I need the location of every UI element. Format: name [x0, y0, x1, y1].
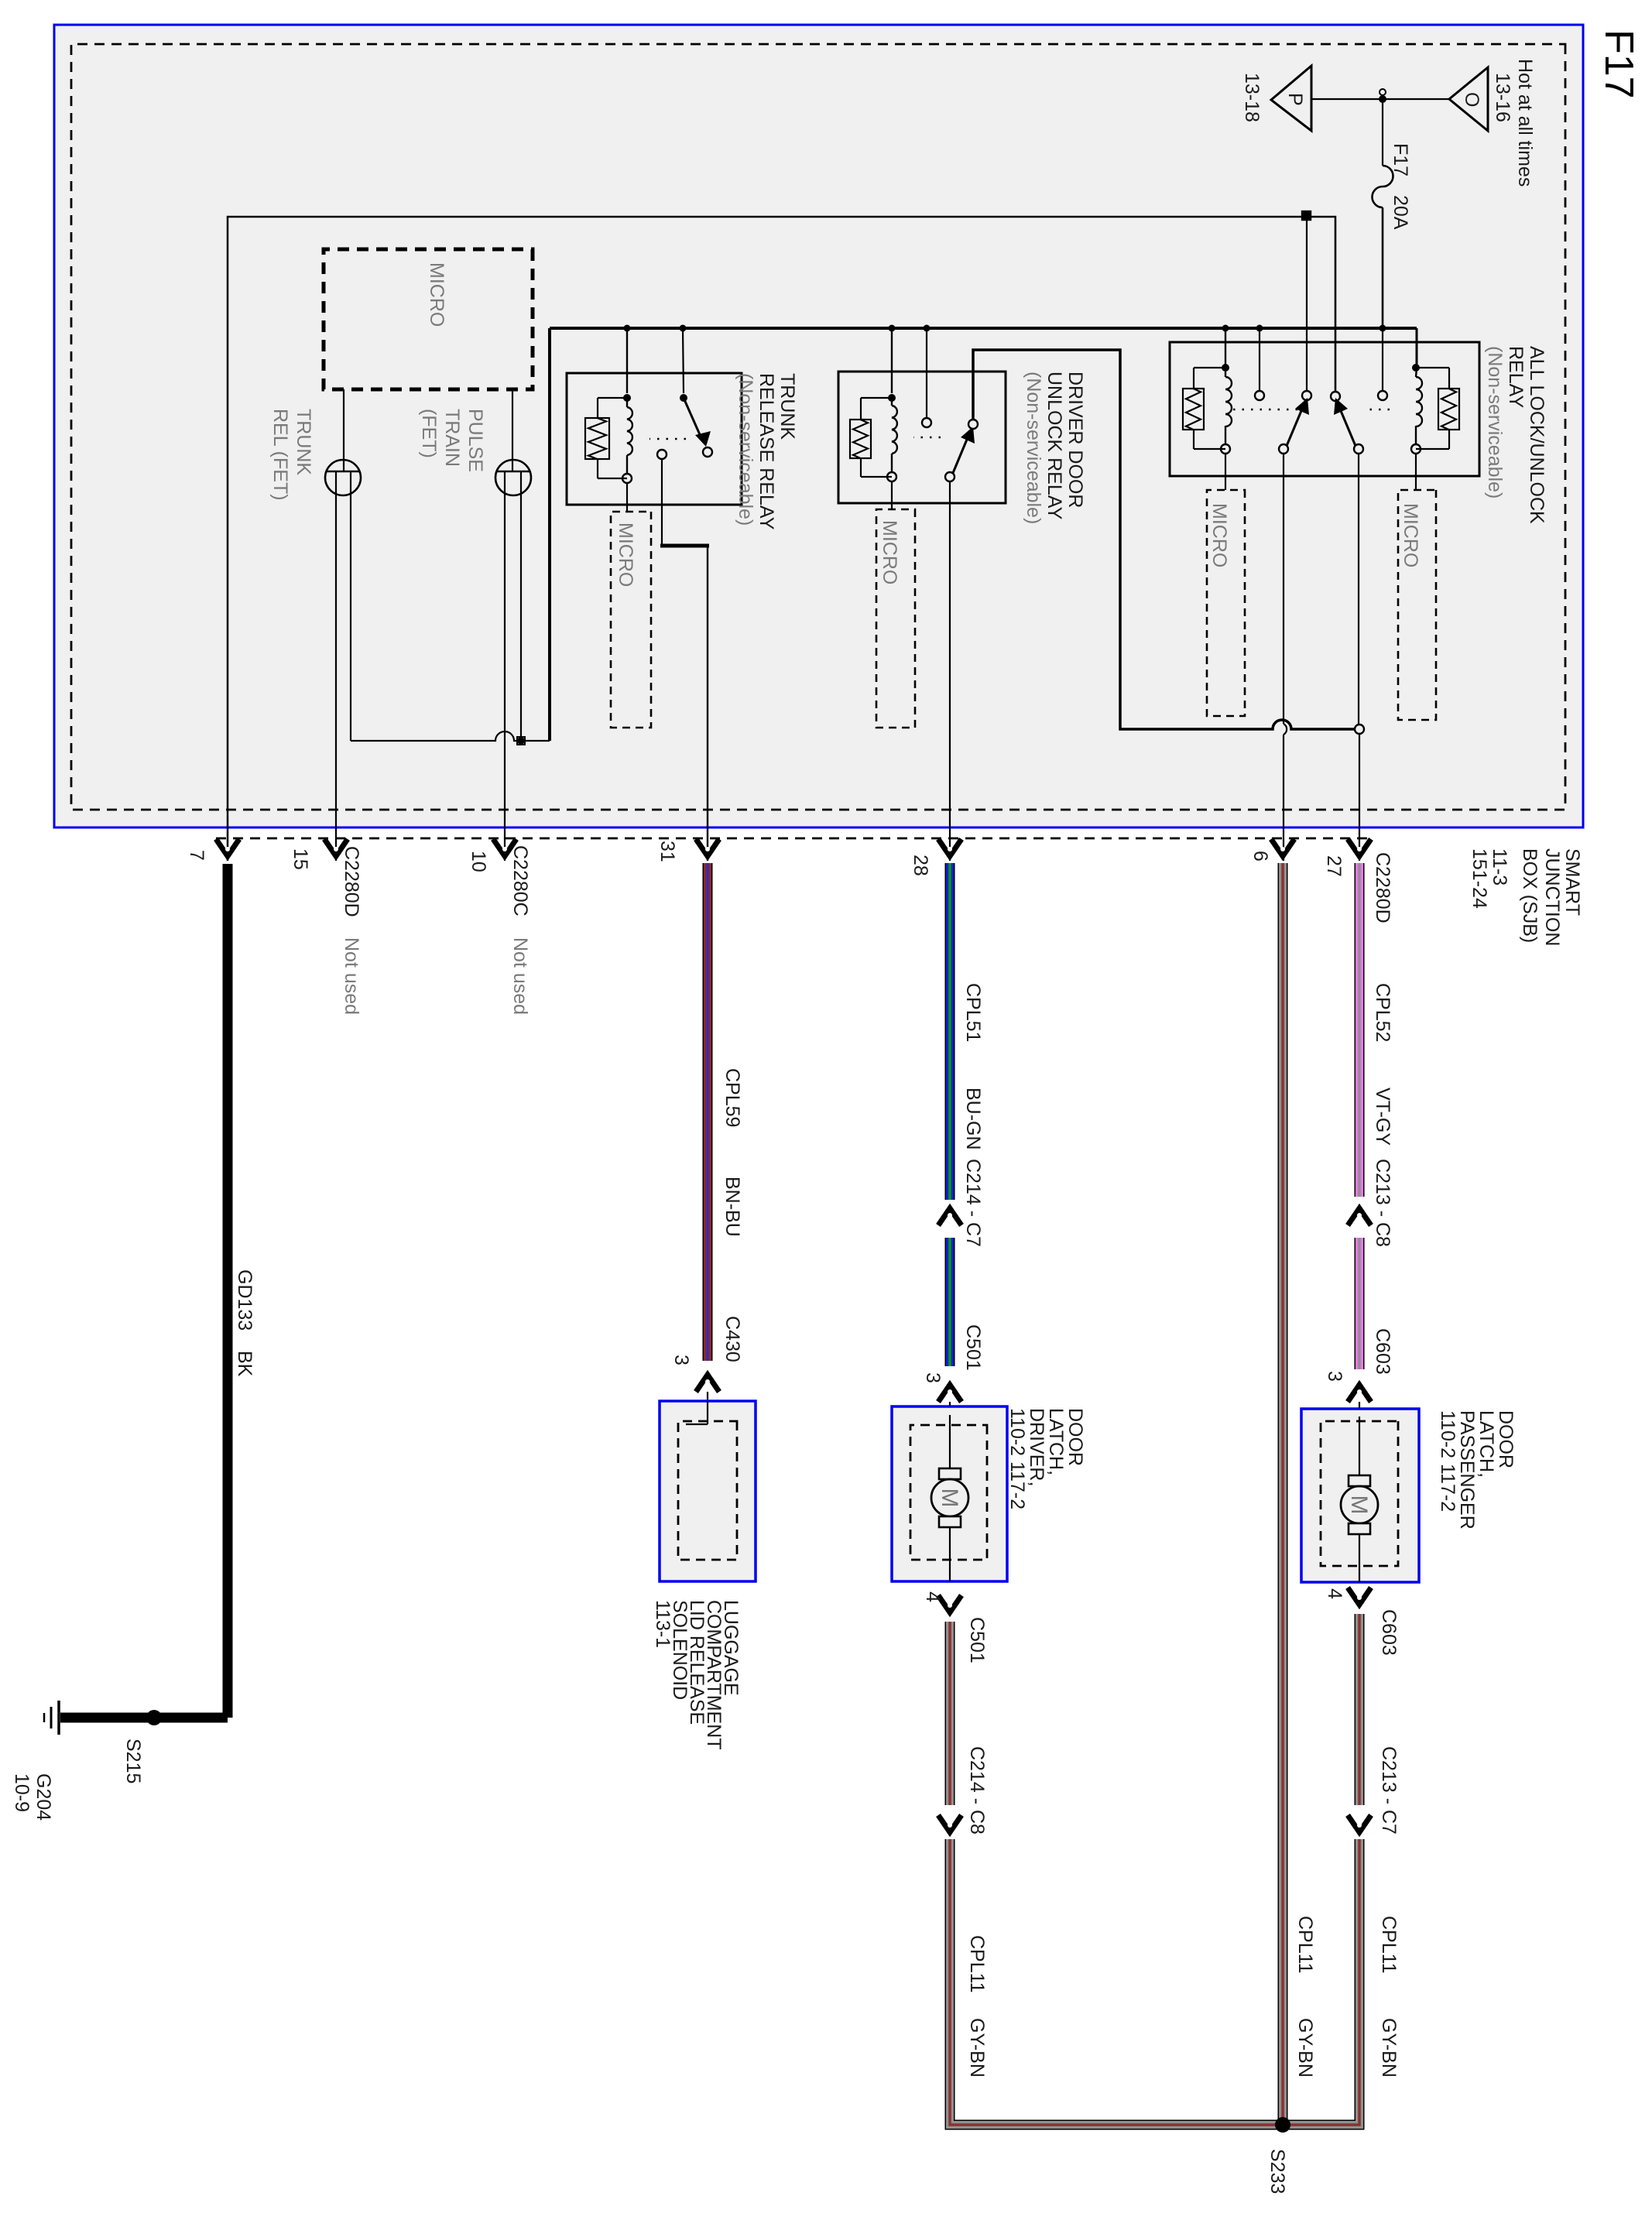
bus dot trunk sw	[680, 325, 687, 332]
svg-text:O: O	[1461, 92, 1482, 107]
pin 6 arrow	[1271, 839, 1294, 856]
driver switch fixed contact	[922, 328, 931, 427]
smart junction box (SJB) outline	[54, 25, 1583, 827]
driver coil resistor	[850, 398, 892, 477]
coil2 resistor	[1416, 368, 1459, 449]
wire in driver latch	[949, 1415, 951, 1468]
connector C501 arrow	[938, 1385, 961, 1402]
SJB inner dashed border	[71, 44, 1565, 810]
DOOR LATCH DRIVER box	[892, 1406, 1007, 1581]
MICRO box lock coil	[1207, 490, 1245, 716]
wire junction to P	[1311, 98, 1383, 100]
all-lock relay coil 2	[1411, 364, 1422, 454]
svg-text:C213 - C8: C213 - C8	[1372, 1159, 1393, 1247]
wire trunk output jog	[661, 459, 663, 546]
svg-text:REL (FET): REL (FET)	[269, 409, 291, 501]
wire CPL11 GY-BN passenger return	[1355, 1614, 1365, 1805]
trunk switch NC contact	[703, 447, 712, 457]
svg-text:RELEASE RELAY: RELEASE RELAY	[756, 373, 777, 530]
bus dot driver coil	[889, 325, 896, 332]
pin 7 arrow	[216, 839, 239, 856]
svg-text:DRIVER,: DRIVER,	[1026, 1408, 1047, 1486]
svg-text:M: M	[1346, 1495, 1372, 1515]
wire into luggage box	[707, 1392, 708, 1424]
unlock switch NC contact	[1331, 220, 1340, 401]
svg-text:SMART: SMART	[1561, 848, 1583, 916]
svg-text:G204: G204	[33, 1773, 54, 1821]
svg-text:TRUNK: TRUNK	[293, 409, 314, 475]
ground rail	[228, 217, 1335, 861]
svg-text:TRAIN: TRAIN	[441, 409, 463, 467]
svg-text:LATCH,: LATCH,	[1475, 1410, 1497, 1478]
transistor PULSE TRAIN FET	[495, 389, 531, 495]
pin 4 arrow passenger	[1348, 1588, 1371, 1605]
svg-text:(Non-serviceable): (Non-serviceable)	[1484, 346, 1506, 498]
unlock switch fixed contact	[1378, 328, 1387, 400]
junction ring pin27	[1355, 725, 1364, 734]
LUGGAGE SOLENOID box	[660, 1401, 756, 1581]
pin 28 arrow	[938, 839, 961, 856]
MICRO box main	[324, 249, 533, 389]
svg-text:C501: C501	[966, 1617, 988, 1663]
MICRO box driver	[876, 509, 915, 728]
wire junction to fuse	[1382, 99, 1383, 166]
svg-text:4: 4	[922, 1591, 944, 1602]
svg-text:BK: BK	[234, 1351, 255, 1377]
connector C213-C8 arrow	[1348, 1208, 1371, 1225]
svg-text:ALL LOCK/UNLOCK: ALL LOCK/UNLOCK	[1526, 346, 1547, 524]
thick wire driver output to junction	[973, 350, 1355, 729]
wire CPL51 BU-GN segment 1	[945, 863, 955, 1200]
lock switch link	[1230, 409, 1297, 410]
svg-text:13-16: 13-16	[1492, 73, 1513, 122]
splice S233	[1275, 2117, 1290, 2133]
svg-text:DOOR: DOOR	[1495, 1410, 1517, 1468]
svg-text:CPL51: CPL51	[962, 983, 984, 1042]
svg-text:C2280C: C2280C	[509, 845, 531, 916]
wire unlock switch to junction	[1358, 454, 1359, 725]
trunk switch link	[649, 438, 686, 440]
svg-text:Hot at all times: Hot at all times	[1514, 59, 1536, 187]
svg-text:S233: S233	[1266, 2149, 1288, 2194]
wire bus to lock coil nodeA	[1225, 328, 1226, 368]
bus dot fuse	[1380, 325, 1386, 332]
pulse FET output pin 10	[504, 471, 506, 861]
driver switch output contact	[968, 420, 978, 429]
svg-text:DRIVER DOOR: DRIVER DOOR	[1064, 372, 1086, 508]
svg-text:UNLOCK RELAY: UNLOCK RELAY	[1044, 372, 1065, 520]
svg-text:C2280D: C2280D	[1372, 852, 1393, 923]
lock coil resistor	[1183, 368, 1225, 449]
svg-text:CPL59: CPL59	[721, 1068, 743, 1127]
transistor TRUNK REL FET	[325, 389, 361, 495]
wire CPL51 BU-GN segment 2	[945, 1238, 955, 1366]
svg-text:C430: C430	[721, 1316, 743, 1362]
svg-text:CPL11: CPL11	[1294, 1916, 1316, 1974]
svg-text:BOX (SJB): BOX (SJB)	[1519, 848, 1541, 943]
wire lock switch to pin 6	[1283, 454, 1284, 724]
wire lock coil to MICRO	[1225, 454, 1226, 490]
pulse FET output to junction	[517, 471, 525, 745]
ground rail junction square	[1302, 211, 1311, 220]
svg-text:M: M	[937, 1489, 962, 1508]
svg-text:P: P	[1284, 93, 1306, 106]
pin 27 arrow	[1348, 839, 1371, 856]
svg-text:MICRO: MICRO	[1208, 503, 1230, 567]
connector C2280 dashed line	[215, 838, 1367, 840]
bus dot unlock contact	[1256, 325, 1263, 332]
svg-text:GY-BN: GY-BN	[1378, 2018, 1400, 2078]
wire inside luggage box	[707, 1401, 708, 1424]
unlock switch arm	[1334, 398, 1363, 454]
trunk relay coil	[622, 328, 632, 483]
svg-text:13-18: 13-18	[1241, 73, 1263, 122]
svg-text:(Non-serviceable): (Non-serviceable)	[735, 373, 756, 526]
wire GD133 BK	[223, 864, 233, 1718]
svg-text:BN-BU: BN-BU	[721, 1177, 743, 1237]
wire CPL11 GY-BN driver return	[945, 1622, 955, 1805]
svg-text:(FET): (FET)	[418, 409, 440, 458]
svg-text:DOOR: DOOR	[1064, 1408, 1086, 1466]
connector C214-C8 arrow	[938, 1815, 961, 1832]
junction node A	[1379, 95, 1386, 103]
wire O to junction	[1383, 98, 1449, 100]
trunk coil resistor	[585, 398, 627, 478]
trunk FET output pin 15	[335, 471, 337, 861]
wire CPL59 BN-BU	[703, 863, 713, 1361]
ground G204	[57, 1701, 60, 1735]
svg-text:10: 10	[468, 851, 489, 872]
lock switch fixed contact	[1255, 328, 1264, 400]
svg-text:151-24: 151-24	[1469, 848, 1490, 909]
MICRO box trunk	[611, 512, 651, 728]
fuse F17 20A	[1373, 166, 1393, 207]
wire into passenger latch	[1359, 1402, 1360, 1417]
wire in passenger latch	[1359, 1417, 1360, 1475]
wire into driver latch	[949, 1402, 951, 1415]
pin 4 arrow driver	[938, 1595, 961, 1612]
svg-text:C213 - C7: C213 - C7	[1378, 1746, 1400, 1835]
ALL LOCK/UNLOCK RELAY box	[1170, 342, 1479, 476]
bus bottom corner	[548, 328, 551, 741]
pin 31 arrow	[696, 839, 719, 856]
pin 10 arrow	[493, 839, 516, 856]
wire CPL52 VT-GY segment 2	[1355, 1238, 1365, 1369]
trunk switch arm	[684, 398, 711, 447]
svg-text:113-1: 113-1	[652, 1600, 673, 1648]
svg-text:15: 15	[290, 848, 311, 870]
svg-text:PULSE: PULSE	[464, 409, 486, 472]
svg-text:C501: C501	[962, 1324, 984, 1371]
svg-text:C214 - C8: C214 - C8	[966, 1746, 988, 1835]
wire junction to pin 27	[1359, 734, 1360, 861]
wire driver coil to MICRO	[891, 481, 893, 509]
splice S215	[146, 1710, 162, 1725]
trunk FET output to bus	[350, 471, 351, 741]
svg-text:JUNCTION: JUNCTION	[1541, 848, 1563, 946]
lock relay coil	[1221, 364, 1232, 454]
TRUNK RELEASE RELAY box	[567, 373, 742, 505]
driver switch link	[913, 437, 941, 438]
svg-text:F17: F17	[1390, 143, 1411, 176]
svg-text:C214 - C7: C214 - C7	[962, 1159, 984, 1247]
passenger latch dashed box	[1321, 1421, 1398, 1566]
lock switch NC contact	[1302, 220, 1311, 400]
svg-text:CPL11: CPL11	[966, 1935, 988, 1993]
svg-text:27: 27	[1323, 855, 1345, 877]
svg-text:LATCH,: LATCH,	[1045, 1408, 1067, 1475]
svg-text:6: 6	[1249, 851, 1271, 862]
svg-text:F17: F17	[1596, 29, 1641, 99]
motor M passenger	[1341, 1475, 1378, 1582]
svg-text:28: 28	[910, 855, 931, 876]
svg-text:MICRO: MICRO	[1400, 503, 1421, 567]
bus dot driver sw	[924, 325, 931, 332]
svg-text:VT-GY: VT-GY	[1372, 1088, 1393, 1146]
svg-text:Not used: Not used	[509, 937, 531, 1015]
driver switch arm	[945, 427, 975, 481]
bus vertical	[550, 327, 1417, 330]
svg-text:11-3: 11-3	[1489, 848, 1510, 886]
svg-text:C2280D: C2280D	[341, 846, 362, 917]
wire CPL11 GY-BN pin6	[1278, 863, 1288, 2125]
svg-text:110-2 117-2: 110-2 117-2	[1006, 1408, 1028, 1509]
bus dot lock coil	[1222, 325, 1229, 332]
svg-text:PASSENGER: PASSENGER	[1456, 1410, 1478, 1530]
svg-text:CPL11: CPL11	[1378, 1916, 1400, 1974]
svg-text:MICRO: MICRO	[615, 522, 636, 587]
trunk switch output contact	[657, 450, 667, 459]
wire trunk coil to MICRO	[626, 483, 628, 512]
trunk switch pivot	[680, 328, 687, 402]
bus drop to FET outputs	[351, 731, 550, 741]
wire coil2 to MICRO	[1415, 454, 1417, 490]
lock switch arm	[1279, 398, 1309, 454]
driver relay coil	[887, 328, 897, 481]
wire driver switch to pin 28	[949, 481, 951, 861]
svg-text:(Non-serviceable): (Non-serviceable)	[1023, 372, 1044, 524]
svg-text:4: 4	[1324, 1588, 1345, 1599]
svg-text:GD133: GD133	[234, 1269, 255, 1331]
svg-text:3: 3	[1324, 1371, 1345, 1382]
DOOR LATCH PASSENGER box	[1301, 1409, 1419, 1582]
svg-text:110-2 117-2: 110-2 117-2	[1437, 1410, 1458, 1512]
svg-text:MICRO: MICRO	[879, 520, 900, 584]
wire CPL52 VT-GY segment 1	[1355, 863, 1365, 1197]
motor M driver	[931, 1468, 968, 1581]
unlock switch link	[1365, 409, 1390, 410]
connector C430 arrow	[696, 1375, 719, 1392]
connector C603 arrow	[1348, 1385, 1371, 1402]
bus dot trunk coil	[624, 325, 631, 332]
svg-text:Not used: Not used	[341, 937, 362, 1015]
svg-text:BU-GN: BU-GN	[962, 1088, 984, 1150]
svg-text:20A: 20A	[1390, 195, 1411, 230]
connector C214-C7 arrow	[938, 1208, 961, 1225]
svg-text:RELAY: RELAY	[1505, 346, 1527, 408]
svg-text:3: 3	[922, 1372, 944, 1383]
svg-text:31: 31	[656, 841, 678, 862]
power feed triangle O (Hot at all times 13-16)	[1449, 67, 1488, 131]
svg-text:C603: C603	[1372, 1328, 1393, 1375]
svg-text:CPL52: CPL52	[1372, 983, 1393, 1042]
DRIVER DOOR UNLOCK RELAY box	[838, 372, 1006, 503]
svg-text:C603: C603	[1378, 1609, 1400, 1656]
connector C213-C7 arrow	[1348, 1815, 1371, 1832]
svg-text:10-9: 10-9	[11, 1773, 33, 1812]
svg-text:7: 7	[186, 850, 207, 861]
wire fuse to bus	[1382, 207, 1384, 328]
svg-text:S215: S215	[122, 1739, 144, 1783]
bus top corner to right coil	[1416, 328, 1418, 368]
off-page triangle P	[1271, 66, 1311, 131]
svg-text:MICRO: MICRO	[426, 262, 447, 327]
MICRO box coil2	[1398, 490, 1436, 720]
pin 15 arrow	[324, 839, 348, 856]
svg-text:TRUNK: TRUNK	[776, 373, 798, 440]
svg-text:GY-BN: GY-BN	[1294, 2018, 1316, 2078]
svg-text:3: 3	[670, 1355, 692, 1365]
svg-text:GY-BN: GY-BN	[966, 2018, 988, 2078]
driver latch dashed box	[910, 1425, 987, 1560]
luggage dashed box	[678, 1421, 737, 1560]
